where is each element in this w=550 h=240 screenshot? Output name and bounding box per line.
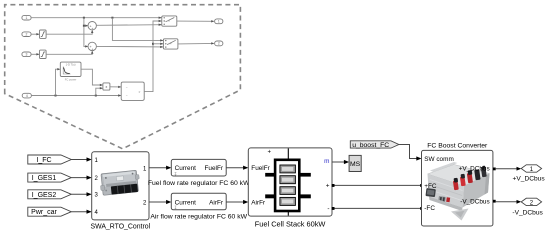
wire: u_boost_FC to converter SW comm — [399, 145, 422, 161]
block SWA_RTO_Control — [92, 152, 149, 220]
svg-text:AirFr: AirFr — [209, 199, 224, 206]
svg-text:~: ~ — [126, 94, 128, 98]
fuel-calc subsystem block — [121, 82, 144, 100]
switch block 2 — [163, 39, 178, 49]
wire: row4 junction up to lookup table input — [56, 68, 61, 96]
callout balloon dashed outline — [5, 5, 241, 149]
svg-text:3: 3 — [26, 53, 28, 57]
wire: saturation1 to sum1 bottom input — [46, 30, 93, 34]
svg-text:+V_DCbus: +V_DCbus — [459, 166, 490, 173]
lookup table block — [60, 62, 81, 81]
svg-text:MS: MS — [350, 161, 361, 168]
inport oval 3 (balloon) — [22, 52, 31, 57]
svg-text:+: + — [91, 48, 93, 52]
svg-text:4: 4 — [26, 94, 28, 98]
wire: product output to fuel-calc block input1 — [110, 86, 121, 88]
outport 1 hexagon — [521, 165, 541, 173]
label +V_DCbus — [513, 175, 546, 182]
saturation block 2 — [40, 50, 47, 58]
svg-text:↧: ↧ — [174, 205, 178, 210]
svg-text:2: 2 — [26, 32, 28, 36]
outport oval 2 (balloon) — [215, 41, 223, 46]
svg-text:~: ~ — [126, 85, 128, 89]
wire: fuel regulator to FCS FuelFr — [226, 166, 248, 170]
inport oval 2 (balloon) — [22, 32, 31, 37]
wire: I_FC to SWA_RTO_Control port1 — [71, 157, 91, 161]
wire: SWA out1 to fuel regulator — [149, 166, 171, 170]
svg-text:Fuel flow rate regulator FC 60: Fuel flow rate regulator FC 60 kW — [148, 180, 250, 187]
wire: switch1 to outport1 — [177, 20, 215, 22]
svg-text:Current: Current — [175, 199, 197, 206]
svg-text:u_boost_FC: u_boost_FC — [352, 142, 389, 149]
wire: lookup output to product input1 — [81, 69, 103, 86]
block fuel flow rate regulator — [171, 159, 226, 176]
wire: converter +V_DCbus to outport 1 — [496, 167, 522, 171]
wire: inport3 to saturation2 — [31, 53, 39, 55]
label SWA_RTO_Control — [90, 224, 150, 231]
inport tag I_GES2 — [28, 190, 72, 199]
inport tag I_GES1 — [28, 173, 72, 182]
label -V_DCbus — [512, 209, 543, 216]
block MS — [349, 155, 361, 171]
svg-text:Fuel Cell Stack 60kW: Fuel Cell Stack 60kW — [255, 220, 326, 229]
wire: sum1 output to switch1 input3 — [96, 24, 161, 26]
svg-text:-V_DCbus: -V_DCbus — [512, 209, 543, 216]
wire: fuel-calc output up to switch middle inputs — [144, 20, 163, 92]
block Fuel Cell Stack 60kW — [248, 148, 332, 216]
wire: inport2 to saturation1 — [31, 33, 39, 35]
svg-text:SWA_RTO_Control: SWA_RTO_Control — [90, 224, 150, 231]
svg-text:Current: Current — [175, 165, 197, 172]
svg-text:I_FC: I_FC — [36, 157, 51, 164]
svg-text:1-D T(u): 1-D T(u) — [66, 62, 76, 66]
wire: SWA out2 to air regulator — [149, 200, 171, 204]
wire: saturation2 to sum2 bottom input — [46, 51, 93, 55]
svg-text:+FC: +FC — [424, 183, 437, 190]
converter photo — [425, 162, 489, 221]
sum block 2 — [88, 42, 96, 52]
saturation block 1 — [40, 30, 47, 38]
svg-text:FC Boost Converter: FC Boost Converter — [427, 142, 488, 149]
wire: inport4 row to fuel-calc block input2 — [31, 94, 121, 96]
svg-text:-FC: -FC — [424, 205, 435, 212]
junction node on top wire feeding switch2 — [111, 17, 113, 19]
svg-text:Pwr_car: Pwr_car — [31, 209, 57, 216]
inport tag I_FC — [28, 155, 72, 164]
wire: sum2 output to switch2 input3 — [96, 46, 163, 48]
inport oval 4 (balloon) — [22, 93, 31, 98]
wire: top-wire branch to switch2 input1 — [112, 18, 163, 42]
svg-text:2: 2 — [218, 42, 220, 46]
svg-text:FC power: FC power — [65, 77, 77, 81]
inport oval 1 (balloon) — [22, 15, 31, 20]
wire: inport1 to switch1 top input — [31, 17, 162, 19]
svg-text:+: + — [91, 27, 93, 31]
junction node row4 to lookup — [55, 95, 57, 97]
wire: converter -V_DCbus to outport 2 — [496, 200, 522, 204]
wire: I_GES1 to SWA_RTO_Control port2 — [71, 176, 91, 180]
label FC Boost Converter — [427, 142, 488, 149]
svg-text:Air flow rate regulator FC 60: Air flow rate regulator FC 60 kW — [150, 214, 247, 221]
wire: FCS + output to converter +FC — [332, 184, 424, 187]
junction node on top wire feeding sums — [83, 17, 85, 19]
block air flow rate regulator — [171, 193, 226, 210]
svg-text:x: x — [106, 85, 108, 89]
svg-text:FuelFr: FuelFr — [251, 165, 270, 172]
svg-text:FuelFr: FuelFr — [205, 165, 224, 172]
converter port labels — [424, 156, 495, 212]
svg-text:AirFr: AirFr — [251, 199, 266, 206]
wire: FCS - output to converter -FC — [332, 207, 424, 210]
svg-text:SW comm: SW comm — [424, 156, 453, 163]
wire: air regulator to FCS AirFr — [226, 200, 248, 204]
wire: I_GES2 to SWA_RTO_Control port3 — [71, 192, 91, 196]
svg-text:fr: fr — [139, 90, 141, 94]
svg-text:-: - — [327, 206, 329, 213]
svg-text:↧: ↧ — [174, 171, 178, 176]
svg-text:I_GES2: I_GES2 — [32, 192, 57, 199]
sum block 1 — [88, 22, 96, 32]
inport tag Pwr_car — [28, 207, 72, 216]
fuel cell stack icon — [265, 148, 311, 215]
block FC Boost Converter — [422, 150, 493, 226]
svg-text:+: + — [326, 183, 330, 190]
svg-text:+: + — [268, 149, 272, 155]
outport oval 1 (balloon) — [215, 19, 223, 24]
label Fuel Cell Stack 60kW — [255, 220, 326, 229]
from tag u_boost_FC — [350, 141, 399, 149]
label fuel flow rate regulator — [148, 180, 250, 187]
wire: row4 junction up to product input2 — [96, 87, 103, 96]
wire: Pwr_car to SWA_RTO_Control port4 — [71, 210, 91, 214]
ECU image inside SWA_RTO_Control — [99, 170, 140, 196]
svg-text:I_GES1: I_GES1 — [32, 175, 57, 182]
label air flow rate regulator — [150, 214, 247, 221]
wire: top-wire branch down to sum1 and sum2 left inputs — [83, 18, 88, 48]
svg-text:1: 1 — [26, 16, 28, 20]
svg-text:m: m — [324, 158, 329, 165]
svg-text:1: 1 — [218, 20, 220, 24]
switch block 1 — [162, 16, 177, 26]
wire: FCS m output to MS block — [332, 160, 349, 164]
svg-text:+V_DCbus: +V_DCbus — [513, 175, 546, 182]
outport 2 hexagon — [521, 198, 541, 206]
wire: switch2 to outport2 — [178, 42, 214, 44]
junction node row4 to product — [95, 95, 97, 97]
product block — [103, 83, 110, 90]
svg-text:-V_DCbus: -V_DCbus — [460, 198, 489, 205]
